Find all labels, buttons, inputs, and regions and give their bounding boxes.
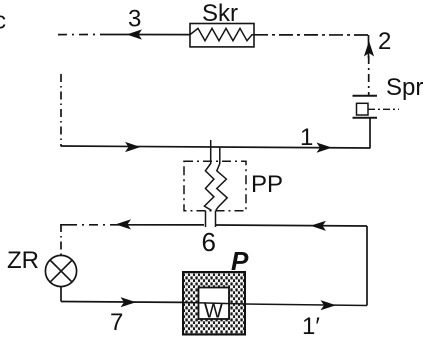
svg-text:6: 6 (202, 227, 216, 257)
arrow on line 6 pointing left (right side) (311, 221, 327, 231)
expansion valve Spr dashed stem (368, 108, 399, 110)
svg-text:ZR: ZR (7, 247, 39, 274)
arrow pointing up at state 2 (364, 41, 374, 57)
arrow on middle line pointing right (state 1) (317, 143, 333, 153)
expansion valve Spr bottom plate (353, 117, 378, 119)
arrow on top line pointing left (state 3) (127, 29, 143, 39)
wire middle line 1 (61, 146, 370, 148)
wire top line Skr box to right corner (254, 34, 369, 36)
svg-text:1′: 1′ (302, 313, 320, 337)
arrow on bottom line pointing right (state 7) (121, 297, 137, 307)
svg-text:2: 2 (378, 28, 391, 55)
wire right vertical below top corner (368, 35, 370, 58)
wire left vertical to compressor dash-dot (60, 224, 62, 256)
expansion valve Spr top plate (353, 95, 378, 97)
wire top line left dash-dot segment (58, 34, 100, 36)
arrow on line 6 pointing left (left side) (116, 219, 132, 229)
evaporator PP left zigzag (204, 164, 214, 211)
wire line 6 left segment (61, 223, 68, 226)
wire line 6 right segment (216, 225, 367, 226)
wire top line under arrow to Skr box (100, 34, 190, 36)
svg-text:W: W (204, 301, 223, 323)
wire compressor to bottom corner (60, 287, 62, 302)
heater box P stippled outer (183, 272, 245, 335)
svg-text:7: 7 (110, 309, 123, 336)
wire bottom line crossing heater box (183, 302, 245, 304)
wire right vertical lower (366, 226, 368, 306)
expansion valve Spr body box (357, 103, 369, 115)
svg-text:Skr: Skr (202, 0, 238, 27)
svg-text:c: c (0, 8, 6, 35)
evaporator PP right zigzag (216, 164, 227, 211)
arrow on bottom line pointing right (state 1') (321, 300, 337, 310)
arrow on middle line pointing right (left side) (125, 142, 141, 152)
evaporator PP dash-dot box (184, 161, 246, 211)
condenser Skr zigzag (190, 28, 254, 40)
wire bottom line 7 through heater to right (61, 301, 183, 304)
svg-text:1: 1 (300, 124, 313, 151)
evaporator PP stubs bottom (205, 211, 207, 227)
wire middle corner to Spr bottom (369, 118, 371, 149)
wire bottom line right of heater (245, 304, 367, 306)
heater inner white box (199, 288, 230, 320)
svg-text:PP: PP (251, 171, 283, 198)
compressor ZR cross (50, 260, 72, 282)
condenser Skr box (190, 24, 254, 47)
compressor ZR circle (45, 255, 76, 286)
wire right vertical dash-dot to Spr (368, 56, 370, 95)
evaporator PP stubs top (210, 140, 212, 164)
svg-text:Spr: Spr (386, 74, 423, 101)
svg-text:3: 3 (128, 6, 141, 33)
svg-text:P: P (231, 246, 249, 276)
wire left vertical upper dash-dot (60, 74, 62, 147)
